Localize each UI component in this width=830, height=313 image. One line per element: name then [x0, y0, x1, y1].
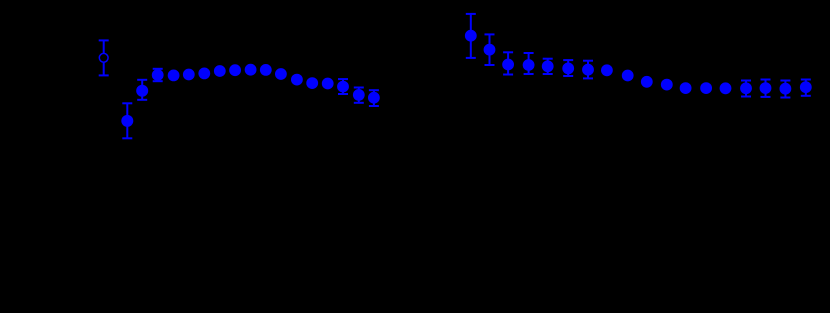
left panel open-circle data point with error bar	[99, 40, 109, 75]
right panel data series	[465, 14, 812, 98]
left panel data series	[152, 64, 380, 106]
left panel filled data point 2 with error bar	[136, 80, 148, 100]
left panel filled data point 1 with error bar	[121, 103, 133, 138]
